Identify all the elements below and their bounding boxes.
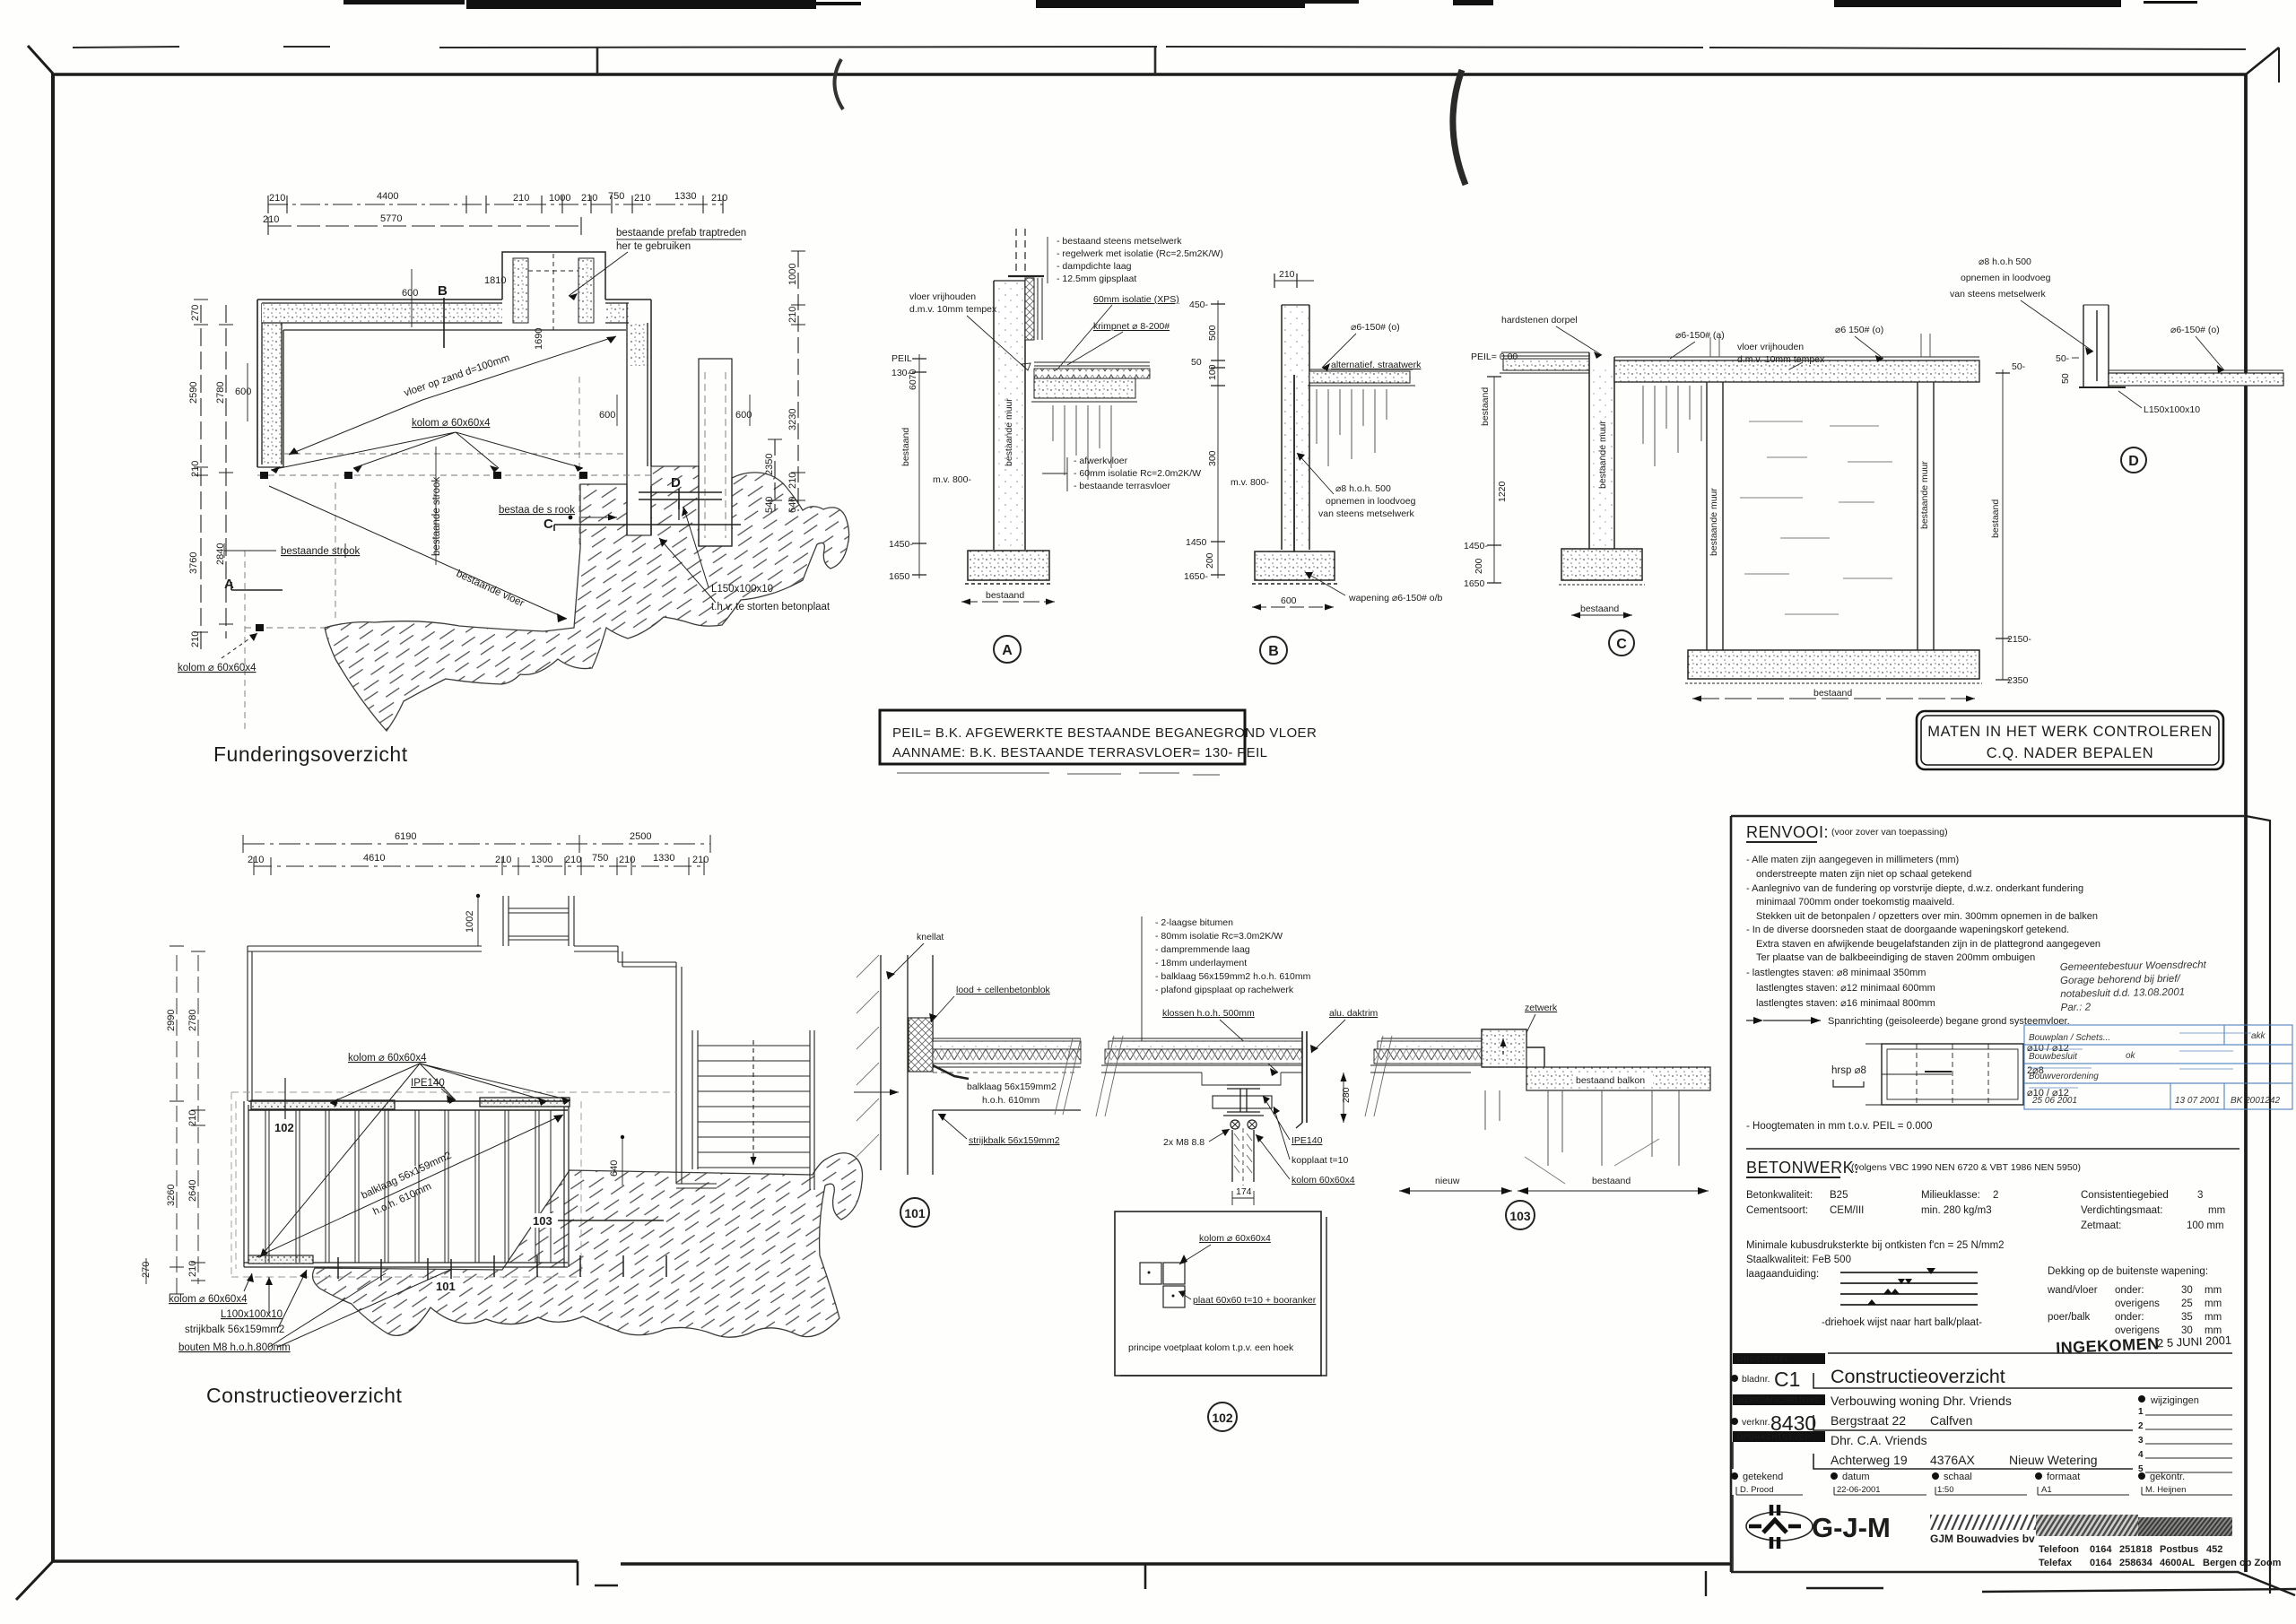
right dims (between A and B) (1217, 300, 1219, 578)
svg-text:notabesluit d.d. 13.08.2001: notabesluit d.d. 13.08.2001 (2060, 987, 2185, 1000)
svg-text:13 07 2001: 13 07 2001 (2175, 1096, 2220, 1106)
svg-text:Par.: 2: Par.: 2 (2060, 1002, 2091, 1013)
svg-text:0164: 0164 (2090, 1558, 2112, 1568)
svg-text:vloer vrijhouden: vloer vrijhouden (909, 291, 976, 302)
svg-text:1450-: 1450- (889, 539, 913, 550)
svg-text:750: 750 (592, 853, 608, 864)
svg-text:MATEN IN HET WERK CONTROLEREN: MATEN IN HET WERK CONTROLEREN (1927, 724, 2212, 740)
svg-text:mm: mm (2208, 1205, 2225, 1216)
svg-text:OPDRACHTGEVER: OPDRACHTGEVER (1737, 1433, 1811, 1441)
svg-text:poer/balk: poer/balk (2048, 1312, 2091, 1323)
svg-text:101: 101 (436, 1280, 456, 1293)
svg-text:1220: 1220 (1497, 481, 1508, 502)
svg-text:101: 101 (904, 1206, 926, 1220)
svg-text:-driehoek wijst naar hart balk: -driehoek wijst naar hart balk/plaat- (1822, 1317, 1982, 1328)
svg-text:4400: 4400 (377, 191, 398, 202)
svg-text:(voor zover van toepassing): (voor zover van toepassing) (1831, 827, 1948, 838)
svg-text:270: 270 (190, 305, 201, 321)
svg-text:Dekking op de buitenste wapeni: Dekking op de buitenste wapening: (2048, 1266, 2208, 1277)
svg-text:D: D (2128, 454, 2139, 469)
left dim lines (194, 300, 233, 655)
svg-text:laagaanduiding:: laagaanduiding: (1746, 1269, 1819, 1280)
svg-text:bestaand: bestaand (1990, 499, 2001, 538)
svg-text:kopplaat t=10: kopplaat t=10 (1291, 1155, 1349, 1166)
svg-text:6070: 6070 (908, 369, 918, 390)
bestaand dim below (961, 601, 1055, 603)
svg-text:C: C (544, 517, 553, 532)
280 dim (1343, 1073, 1344, 1123)
svg-text:L150x100x10: L150x100x10 (2144, 404, 2200, 415)
svg-text:210: 210 (565, 855, 581, 865)
svg-text:B: B (438, 283, 448, 299)
svg-text:onderstreepte maten zijn niet: onderstreepte maten zijn niet op schaal … (1756, 869, 1971, 880)
svg-text:kolom ⌀ 60x60x4: kolom ⌀ 60x60x4 (169, 1294, 248, 1305)
svg-text:35: 35 (2181, 1312, 2193, 1323)
svg-text:Bouwplan / Schets...: Bouwplan / Schets... (2029, 1033, 2110, 1043)
svg-text:103: 103 (533, 1214, 552, 1228)
svg-text:⌀6-150# (a): ⌀6-150# (a) (1675, 330, 1725, 341)
daktrim vertical (1302, 1031, 1307, 1123)
svg-text:210: 210 (190, 461, 201, 477)
row 3 (1733, 1431, 1825, 1442)
svg-text:- Hoogtematen in mm t.o.v. PEI: - Hoogtematen in mm t.o.v. PEIL = 0.000 (1746, 1121, 1932, 1132)
svg-text:30: 30 (2181, 1285, 2193, 1296)
long arrow to bottom right (269, 486, 567, 619)
hatch below slab (1643, 386, 1701, 466)
svg-text:⌀6 150# (o): ⌀6 150# (o) (1835, 325, 1883, 335)
ground hatch blob (313, 1153, 863, 1337)
svg-text:3260: 3260 (166, 1185, 177, 1206)
svg-text:- 80mm isolatie Rc=3.0m2K/W: - 80mm isolatie Rc=3.0m2K/W (1155, 931, 1283, 942)
svg-text:B: B (1268, 644, 1279, 659)
wall (995, 281, 1024, 549)
separator (1746, 1148, 2239, 1150)
svg-text:mm: mm (2205, 1298, 2222, 1309)
svg-text:Verdichtingsmaat:: Verdichtingsmaat: (2081, 1205, 2162, 1216)
svg-text:Minimale kubusdruksterkte bij: Minimale kubusdruksterkte bij ontkisten … (1746, 1240, 2005, 1251)
svg-text:⌀8 h.o.h 500: ⌀8 h.o.h 500 (1979, 256, 2031, 267)
svg-text:WERKOMSCHRIJVING: WERKOMSCHRIJVING (1737, 1396, 1821, 1404)
svg-text:25 06 2001: 25 06 2001 (2031, 1096, 2077, 1106)
svg-text:50-: 50- (2056, 353, 2070, 364)
row 1 (1733, 1353, 1825, 1364)
svg-text:6190: 6190 (395, 831, 416, 842)
top dim line 1 (243, 843, 710, 845)
svg-text:m.v. 800-: m.v. 800- (933, 474, 971, 485)
svg-text:m.v. 800-: m.v. 800- (1231, 477, 1269, 488)
left dims (1493, 377, 1495, 583)
svg-text:Cementsoort:: Cementsoort: (1746, 1205, 1808, 1216)
svg-text:210: 210 (711, 193, 727, 204)
svg-text:Ter plaatse van de balkbeeindi: Ter plaatse van de balkbeeindiging de st… (1756, 952, 2035, 963)
svg-text:Consistentiegebied: Consistentiegebied (2081, 1190, 2169, 1201)
leader arrows to columns (271, 432, 583, 473)
stair treads (692, 1030, 810, 1169)
svg-text:bestaande strook: bestaande strook (281, 546, 360, 557)
D bracket beam (639, 492, 722, 499)
right slab (1614, 356, 1979, 358)
svg-text:AANNAME: B.K. BESTAANDE TERRAS: AANNAME: B.K. BESTAANDE TERRASVLOER= 130… (892, 745, 1267, 760)
svg-text:min. 280 kg/m3: min. 280 kg/m3 (1921, 1205, 1992, 1216)
svg-text:kolom ⌀ 60x60x4: kolom ⌀ 60x60x4 (1199, 1233, 1271, 1244)
svg-text:Bergen op Zoom: Bergen op Zoom (2203, 1558, 2282, 1568)
svg-text:2500: 2500 (630, 831, 651, 842)
svg-text:onder:: onder: (2115, 1285, 2144, 1296)
svg-text:210: 210 (692, 855, 709, 865)
svg-text:bestaand: bestaand (1480, 387, 1491, 426)
labels top right (1047, 237, 1048, 283)
svg-text:1650: 1650 (889, 571, 910, 582)
svg-text:174: 174 (1236, 1186, 1252, 1197)
svg-text:PEIL: PEIL (891, 353, 912, 364)
svg-text:Achterweg 19: Achterweg 19 (1831, 1453, 1908, 1467)
svg-text:bestaande muur: bestaande muur (1709, 488, 1719, 556)
svg-text:GJM Bouwadvies bv: GJM Bouwadvies bv (1930, 1533, 2035, 1545)
inner lining crosshatch (1025, 278, 1034, 340)
svg-text:A1: A1 (2041, 1485, 2052, 1495)
svg-text:D. Prood: D. Prood (1740, 1485, 1774, 1495)
laagaanduiding diagram (1840, 1272, 1978, 1305)
row 4 (1731, 1472, 2145, 1480)
slab (2109, 369, 2283, 371)
row 2 (1733, 1394, 1825, 1405)
svg-text:4610: 4610 (363, 853, 385, 864)
svg-text:Bouwbesluit: Bouwbesluit (2029, 1052, 2078, 1062)
svg-text:L150x100x10: L150x100x10 (711, 584, 773, 595)
panel border (1731, 815, 2244, 818)
svg-text:600: 600 (402, 288, 418, 299)
top dimension line 1 (268, 195, 723, 213)
svg-text:2590: 2590 (188, 382, 199, 404)
svg-text:mm: mm (2205, 1285, 2222, 1296)
top beam strips (251, 1100, 395, 1109)
svg-text:strijkbalk 56x159mm2: strijkbalk 56x159mm2 (185, 1324, 284, 1335)
svg-text:M. Heijnen: M. Heijnen (2145, 1485, 2186, 1495)
svg-text:bestaande strook: bestaande strook (431, 477, 442, 556)
svg-text:50: 50 (1191, 357, 1202, 368)
svg-text:kolom ⌀ 60x60x4: kolom ⌀ 60x60x4 (178, 663, 257, 673)
svg-text:lood + cellenbetonblok: lood + cellenbetonblok (956, 985, 1051, 995)
svg-text:wapening ⌀6-150# o/b: wapening ⌀6-150# o/b (1348, 593, 1443, 604)
svg-text:bestaande muur: bestaande muur (1919, 461, 1930, 529)
svg-text:210: 210 (248, 855, 264, 865)
floor build-up (933, 1038, 1081, 1039)
svg-text:210: 210 (787, 307, 798, 323)
svg-text:50: 50 (2060, 373, 2071, 384)
svg-text:- regelwerk met isolatie (Rc=2: - regelwerk met isolatie (Rc=2.5m2K/W) (1057, 248, 1223, 259)
svg-text:BK 2001242: BK 2001242 (2231, 1096, 2280, 1106)
top dim line 2 (254, 865, 704, 867)
svg-text:600: 600 (599, 410, 615, 421)
svg-text:klossen h.o.h. 500mm: klossen h.o.h. 500mm (1162, 1008, 1255, 1019)
svg-text:1450-: 1450- (1464, 541, 1488, 551)
svg-text:200: 200 (1205, 552, 1215, 569)
column squares (256, 472, 587, 631)
svg-text:300: 300 (1207, 450, 1218, 466)
svg-text:2350: 2350 (2007, 675, 2029, 686)
svg-text:Constructieoverzicht: Constructieoverzicht (1831, 1366, 2005, 1387)
roof build-up (1112, 1038, 1302, 1039)
svg-text:1000: 1000 (787, 264, 798, 285)
floor build-up (1034, 362, 1150, 366)
svg-text:2780: 2780 (215, 382, 226, 404)
svg-text:h.o.h. 610mm: h.o.h. 610mm (982, 1095, 1039, 1106)
svg-text:bladnr.: bladnr. (1742, 1374, 1770, 1385)
svg-text:Stekken uit de betonpalen / op: Stekken uit de betonpalen / opzetters ov… (1756, 911, 2098, 922)
wall band: top horizontal (262, 303, 502, 323)
svg-text:2990: 2990 (166, 1010, 177, 1031)
svg-text:- afwerkvloer: - afwerkvloer (1074, 456, 1128, 466)
svg-text:onder:: onder: (2115, 1312, 2144, 1323)
svg-text:⌀6-150# (o): ⌀6-150# (o) (2170, 325, 2220, 335)
svg-text:258634: 258634 (2119, 1558, 2153, 1568)
svg-text:kolom ⌀ 60x60x4: kolom ⌀ 60x60x4 (348, 1053, 427, 1064)
svg-text:Bergstraat 22: Bergstraat 22 (1831, 1413, 1906, 1428)
svg-text:zetwerk: zetwerk (1525, 1003, 1558, 1013)
left roof (1381, 1038, 1482, 1039)
IPE beam with kopplaat (1227, 1085, 1260, 1089)
svg-text:A: A (1002, 643, 1013, 658)
svg-text:Verbouwing woning Dhr. Vriends: Verbouwing woning Dhr. Vriends (1831, 1394, 2012, 1408)
svg-text:Staalkwaliteit: FeB 500: Staalkwaliteit: FeB 500 (1746, 1255, 1851, 1265)
svg-text:- 12.5mm gipsplaat: - 12.5mm gipsplaat (1057, 274, 1136, 284)
svg-text:d.m.v. 10mm tempex: d.m.v. 10mm tempex (1737, 354, 1825, 365)
INGEKOMEN stamp (2056, 1332, 2232, 1358)
svg-text:schaal: schaal (1944, 1472, 1972, 1482)
svg-text:d.m.v. 10mm tempex: d.m.v. 10mm tempex (909, 304, 997, 315)
svg-text:B25: B25 (1830, 1190, 1848, 1201)
bottom-left labels (169, 1294, 291, 1353)
fold artifact crescents (834, 59, 843, 109)
balcony slab (1526, 1067, 1710, 1090)
svg-text:103: 103 (1509, 1209, 1531, 1223)
svg-text:krimpnet ⌀ 8-200#: krimpnet ⌀ 8-200# (1093, 321, 1170, 332)
left dims (918, 354, 920, 578)
right tall column rect (699, 359, 732, 546)
1002 dim (477, 896, 479, 946)
svg-text:102: 102 (1212, 1411, 1233, 1425)
rebar diagram (1865, 1044, 2023, 1105)
svg-text:balklaag 56x159mm2: balklaag 56x159mm2 (967, 1081, 1057, 1092)
footing (1255, 551, 1335, 580)
svg-text:IPE140: IPE140 (1291, 1135, 1323, 1146)
svg-text:- bestaande terrasvloer: - bestaande terrasvloer (1074, 481, 1170, 491)
svg-text:akk: akk (2251, 1031, 2266, 1041)
svg-text:210: 210 (187, 1261, 198, 1277)
svg-text:bestaand balkon: bestaand balkon (1576, 1075, 1645, 1086)
footing (968, 551, 1049, 580)
top dimension line 2 (268, 225, 581, 227)
svg-text:wand/vloer: wand/vloer (2047, 1285, 2098, 1296)
svg-text:principe voetplaat kolom t.p.v: principe voetplaat kolom t.p.v. een hoek (1128, 1342, 1294, 1353)
label leaders (909, 291, 1201, 491)
svg-text:210: 210 (634, 193, 650, 204)
svg-text:60mm isolatie (XPS): 60mm isolatie (XPS) (1093, 294, 1179, 305)
600 markers (235, 288, 752, 421)
svg-text:210: 210 (581, 193, 597, 204)
svg-text:102: 102 (274, 1121, 294, 1134)
svg-text:5770: 5770 (380, 213, 402, 224)
svg-text:500: 500 (1207, 325, 1218, 341)
svg-text:hrsp ⌀8: hrsp ⌀8 (1831, 1065, 1866, 1076)
section marks (224, 283, 681, 592)
svg-text:C.Q. NADER BEPALEN: C.Q. NADER BEPALEN (1987, 745, 2154, 761)
tick marks at bottom joists (bolts) (338, 1255, 666, 1281)
svg-text:knellat: knellat (917, 932, 944, 942)
svg-text:- lastlengtes staven: ⌀8 minim: - lastlengtes staven: ⌀8 minimaal 350mm (1746, 968, 1926, 978)
svg-text:3: 3 (2197, 1190, 2203, 1201)
svg-text:bestaand: bestaand (1580, 604, 1619, 614)
floor right (1309, 369, 1413, 370)
svg-text:Bouwverordening: Bouwverordening (2029, 1072, 2099, 1081)
chimney dashes (1016, 229, 1025, 274)
svg-text:L100x100x10: L100x100x10 (221, 1309, 283, 1320)
wide footing (1688, 650, 1979, 679)
svg-text:450-: 450- (1189, 300, 1209, 310)
wall verticals (881, 955, 933, 1175)
svg-text:kolom ⌀ 60x60x4: kolom ⌀ 60x60x4 (412, 418, 491, 429)
svg-text:600: 600 (235, 386, 251, 397)
svg-text:bestaande prefab traptreden: bestaande prefab traptreden (616, 228, 746, 239)
svg-text:nieuw: nieuw (1435, 1176, 1460, 1186)
PEIL text box (880, 710, 1317, 775)
bolts (1231, 1120, 1239, 1129)
dashed surround (231, 1092, 677, 1277)
labels (1163, 1135, 1355, 1185)
svg-text:IPE140: IPE140 (411, 1078, 445, 1089)
svg-text:210: 210 (190, 631, 201, 647)
vloer op zand arrow (289, 336, 616, 455)
svg-text:Funderingsoverzicht: Funderingsoverzicht (213, 743, 408, 766)
svg-text:- plafond gipsplaat op rachelw: - plafond gipsplaat op rachelwerk (1155, 985, 1294, 995)
svg-text:Telefoon: Telefoon (2039, 1544, 2079, 1555)
svg-text:gekontr.: gekontr. (2150, 1472, 2185, 1482)
hatch verticals below floor (1053, 405, 1111, 480)
svg-text:2640: 2640 (187, 1180, 198, 1202)
svg-text:540: 540 (764, 497, 775, 513)
svg-text:1000: 1000 (549, 193, 570, 204)
wall band: left vertical (262, 303, 282, 465)
svg-text:210: 210 (263, 214, 279, 225)
svg-text:4600AL: 4600AL (2160, 1558, 2195, 1568)
svg-text:⌀6-150# (o): ⌀6-150# (o) (1351, 322, 1400, 333)
svg-text:1810: 1810 (484, 275, 506, 286)
svg-text:2x M8 8.8: 2x M8 8.8 (1163, 1137, 1205, 1148)
svg-text:1: 1 (2138, 1407, 2144, 1417)
wall below balcony (1548, 1090, 1679, 1166)
right dims (2002, 369, 2004, 680)
svg-text:Gorage behorend bij brief/: Gorage behorend bij brief/ (2060, 974, 2182, 986)
svg-text:verknr.: verknr. (1742, 1417, 1770, 1428)
svg-text:ok: ok (2126, 1051, 2136, 1061)
svg-text:210: 210 (269, 193, 285, 204)
svg-text:(volgens VBC 1990 NEN 6720 & V: (volgens VBC 1990 NEN 6720 & VBT 1986 NE… (1851, 1162, 2081, 1173)
svg-text:van steens metselwerk: van steens metselwerk (1318, 508, 1415, 519)
svg-text:Calfven: Calfven (1930, 1413, 1972, 1428)
svg-text:G-J-M: G-J-M (1812, 1512, 1891, 1543)
svg-text:Extra staven en afwijkende beu: Extra staven en afwijkende beugelafstand… (1756, 939, 2100, 950)
svg-text:lastlengtes staven: ⌀12 minima: lastlengtes staven: ⌀12 minimaal 600mm (1756, 983, 1935, 994)
svg-text:280: 280 (1341, 1087, 1352, 1103)
svg-text:Telefax: Telefax (2039, 1558, 2073, 1568)
svg-text:2: 2 (1993, 1190, 1998, 1201)
wall (1590, 367, 1613, 549)
svg-text:200: 200 (1474, 558, 1484, 574)
svg-text:C1: C1 (1774, 1368, 1800, 1391)
logo (1746, 1512, 1813, 1541)
blue table stamp (2024, 1025, 2292, 1109)
dashed existing floor lines (283, 453, 626, 455)
svg-text:452: 452 (2206, 1544, 2222, 1555)
svg-text:210: 210 (495, 855, 511, 865)
svg-text:251818: 251818 (2119, 1544, 2152, 1555)
svg-text:lastlengtes staven: ⌀16 minima: lastlengtes staven: ⌀16 minimaal 800mm (1756, 998, 1935, 1009)
bottom strijkbalk strip (248, 1255, 313, 1264)
svg-text:1300: 1300 (531, 855, 552, 865)
stair bump (502, 252, 605, 300)
circle A (994, 636, 1021, 663)
upstand / zetwerk profile (1482, 1029, 1544, 1067)
svg-text:1650: 1650 (1464, 578, 1485, 589)
right dim lines of plan (768, 251, 805, 511)
principle box (1115, 1211, 1321, 1376)
svg-text:- 2-laagse bitumen: - 2-laagse bitumen (1155, 917, 1233, 928)
640 dim (622, 1137, 623, 1185)
svg-text:- Alle maten zijn aangegeven i: - Alle maten zijn aangegeven in millimet… (1746, 855, 1959, 865)
svg-text:bestaande muur: bestaande muur (1004, 398, 1014, 466)
svg-text:- In de diverse doorsneden sta: - In de diverse doorsneden staat de door… (1746, 925, 2069, 935)
svg-text:210: 210 (187, 1110, 198, 1126)
svg-text:100 mm: 100 mm (2187, 1220, 2224, 1231)
blue stamp handwriting (2060, 960, 2208, 1013)
svg-text:CEM/III: CEM/III (1830, 1205, 1864, 1216)
right vertical band (630, 323, 648, 366)
svg-text:22-06-2001: 22-06-2001 (1837, 1485, 1881, 1495)
svg-text:getekend: getekend (1743, 1472, 1783, 1482)
svg-text:Milieuklasse:: Milieuklasse: (1921, 1190, 1980, 1201)
svg-text:plaat 60x60 t=10 + booranker: plaat 60x60 t=10 + booranker (1193, 1295, 1317, 1306)
svg-text:1002: 1002 (465, 911, 475, 933)
MATEN box (1917, 711, 2223, 769)
svg-text:- 60mm isolatie Rc=2.0m2K/W: - 60mm isolatie Rc=2.0m2K/W (1074, 468, 1201, 479)
left dims (177, 955, 198, 1298)
svg-text:bestaand: bestaand (1592, 1176, 1631, 1186)
svg-text:- bestaand steens metselwerk: - bestaand steens metselwerk (1057, 236, 1182, 247)
hatch strips (1930, 1515, 2036, 1530)
svg-text:Zetmaat:: Zetmaat: (2081, 1220, 2121, 1231)
svg-text:van steens metselwerk: van steens metselwerk (1950, 289, 2047, 300)
svg-text:alternatief. straatwerk: alternatief. straatwerk (1331, 360, 1422, 370)
svg-text:210: 210 (513, 193, 529, 204)
svg-text:Nieuw Wetering: Nieuw Wetering (2009, 1453, 2098, 1467)
joist rectangle (244, 1101, 569, 1267)
svg-text:2780: 2780 (187, 1010, 198, 1031)
svg-text:hardstenen dorpel: hardstenen dorpel (1501, 315, 1578, 326)
svg-text:1330: 1330 (674, 191, 696, 202)
svg-text:0164: 0164 (2090, 1544, 2112, 1555)
cellenbeton block (909, 1018, 933, 1072)
svg-text:640: 640 (787, 497, 798, 513)
svg-text:50-: 50- (2012, 361, 2026, 372)
svg-text:bestaand: bestaand (986, 590, 1024, 601)
svg-text:1:50: 1:50 (1937, 1485, 1954, 1495)
svg-text:⌀8 h.o.h. 500: ⌀8 h.o.h. 500 (1335, 483, 1391, 494)
svg-text:210: 210 (1279, 269, 1295, 280)
svg-text:PEIL= 0.00: PEIL= 0.00 (1471, 352, 1518, 362)
svg-text:wijzigingen: wijzigingen (2150, 1395, 2199, 1406)
svg-text:4: 4 (2138, 1450, 2144, 1460)
svg-text:alu. daktrim: alu. daktrim (1329, 1008, 1378, 1019)
